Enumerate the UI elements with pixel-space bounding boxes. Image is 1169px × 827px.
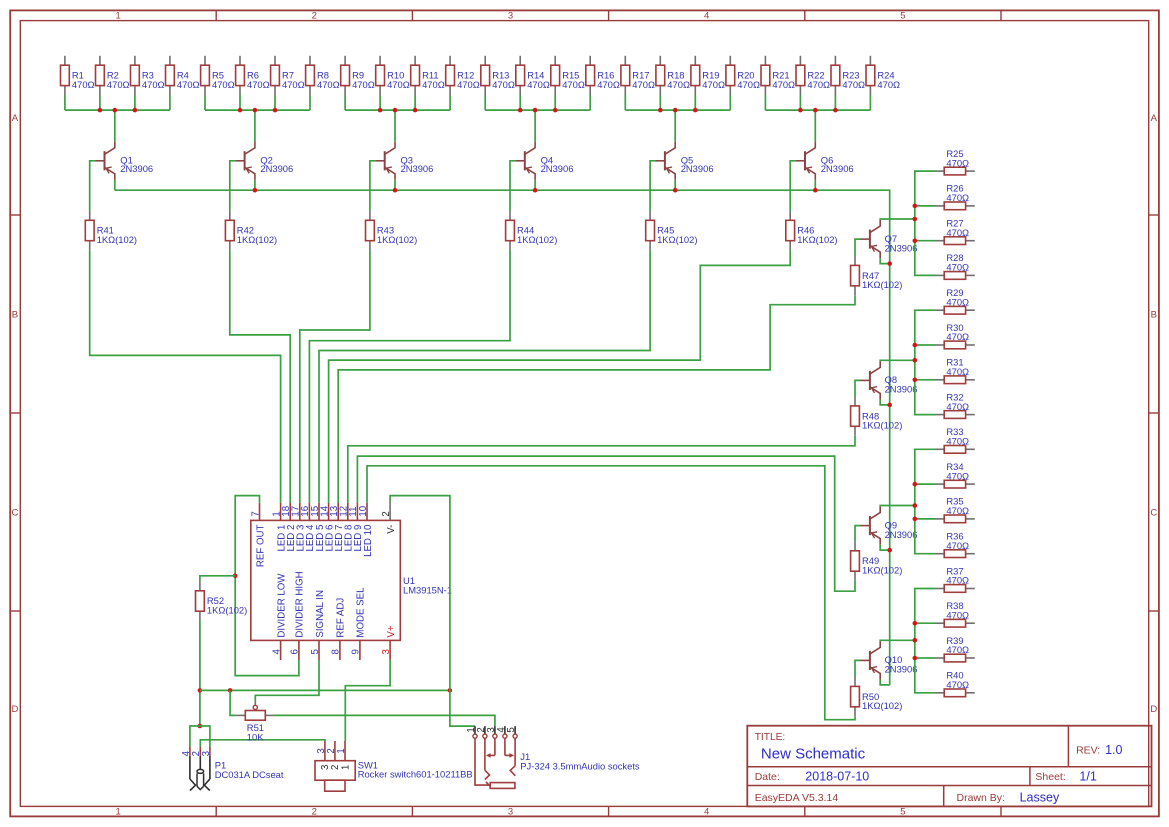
wire (P1 pins 4,3) (190, 726, 210, 747)
junction (913, 343, 918, 348)
pin 2 (V-) (381, 502, 397, 534)
junction (887, 261, 892, 266)
svg-text:470Ω: 470Ω (282, 79, 305, 90)
svg-text:New Schematic: New Schematic (761, 746, 866, 763)
op-amp U1 (LM3915N-1 IC body) (251, 520, 400, 640)
svg-text:470Ω: 470Ω (946, 540, 969, 551)
svg-text:2N3906: 2N3906 (885, 529, 918, 540)
svg-text:470Ω: 470Ω (946, 575, 969, 586)
title block (747, 726, 1151, 807)
svg-text:5: 5 (900, 11, 905, 22)
svg-text:LED 10: LED 10 (363, 524, 374, 557)
svg-text:SIGNAL IN: SIGNAL IN (315, 590, 326, 638)
transistor Q4 (515, 142, 573, 180)
wire (880, 639, 915, 642)
junction (673, 188, 678, 193)
junction (533, 108, 538, 113)
svg-text:1.0: 1.0 (1105, 743, 1122, 757)
svg-text:3: 3 (508, 807, 513, 818)
junction (887, 403, 892, 408)
pin 18 (LED 2) (281, 503, 297, 552)
resistor R24 (866, 56, 900, 95)
transistor Q9 (861, 506, 918, 544)
wire (880, 680, 890, 685)
wire (367, 466, 855, 720)
resistor R21 (761, 56, 795, 95)
resistor R8 (306, 56, 340, 95)
resistor R26 (935, 183, 975, 210)
resistor R11 (411, 56, 445, 95)
svg-text:TITLE:: TITLE: (755, 732, 786, 743)
svg-text:1KΩ(102): 1KΩ(102) (862, 700, 902, 711)
resistor R19 (691, 56, 725, 95)
junction (913, 217, 918, 222)
svg-text:1KΩ(102): 1KΩ(102) (797, 234, 837, 245)
svg-text:470Ω: 470Ω (107, 79, 130, 90)
junction (378, 108, 383, 113)
svg-text:2N3906: 2N3906 (401, 163, 434, 174)
transistor Q2 (235, 142, 293, 180)
wire (855, 239, 861, 256)
junction (393, 188, 398, 193)
pin 10 (LED 10) (358, 503, 374, 557)
svg-text:9: 9 (351, 649, 362, 654)
wire (880, 218, 915, 221)
svg-text:470Ω: 470Ω (177, 79, 200, 90)
svg-text:4: 4 (181, 750, 192, 756)
junction (887, 548, 892, 553)
svg-text:470Ω: 470Ω (492, 79, 515, 90)
svg-text:1KΩ(102): 1KΩ(102) (237, 234, 277, 245)
svg-text:2N3906: 2N3906 (681, 163, 714, 174)
junction (798, 108, 803, 113)
wire (485, 95, 590, 110)
resistor R52 (196, 581, 248, 620)
svg-text:2: 2 (312, 11, 317, 22)
resistor R22 (796, 56, 830, 95)
pin 1 (LED 1) (271, 503, 287, 552)
svg-text:470Ω: 470Ω (667, 79, 690, 90)
svg-text:8: 8 (331, 649, 342, 654)
pin 3 (V+) (381, 625, 397, 660)
wire (880, 545, 890, 550)
junction (553, 108, 558, 113)
wire (309, 250, 510, 503)
svg-text:1/1: 1/1 (1079, 770, 1096, 784)
svg-text:1: 1 (340, 765, 351, 770)
svg-text:1: 1 (115, 807, 120, 818)
resistor R4 (166, 56, 200, 95)
svg-text:MODE SEL: MODE SEL (356, 587, 367, 638)
wire (R51 to J1 pin 3) (274, 715, 495, 726)
resistor R45 (646, 211, 698, 250)
wire (814, 180, 816, 190)
resistor R50 (851, 677, 903, 716)
junction (253, 108, 258, 113)
resistor R9 (341, 56, 375, 95)
svg-text:470Ω: 470Ω (946, 436, 969, 447)
wire (bottom bus) (200, 689, 450, 691)
wire (855, 660, 861, 677)
junction (233, 574, 238, 579)
resistor R36 (935, 531, 975, 558)
pin 8 (REF ADJ) (331, 598, 347, 660)
resistor R6 (236, 56, 270, 95)
wire (880, 400, 890, 405)
svg-text:DIVIDER LOW: DIVIDER LOW (276, 573, 287, 638)
svg-text:470Ω: 470Ω (142, 79, 165, 90)
wire (394, 180, 396, 190)
svg-text:2N3906: 2N3906 (885, 384, 918, 395)
pin 9 (MODE SEL) (351, 587, 367, 660)
junction (913, 656, 918, 661)
svg-text:1KΩ(102): 1KΩ(102) (862, 420, 902, 431)
junction (198, 724, 203, 729)
svg-text:1: 1 (115, 11, 120, 22)
resistor R39 (935, 635, 975, 662)
resistor R32 (935, 391, 975, 418)
svg-text:1KΩ(102): 1KΩ(102) (97, 234, 137, 245)
wire (345, 95, 450, 110)
junction (813, 108, 818, 113)
svg-text:REV:: REV: (1076, 745, 1100, 757)
wire (650, 161, 655, 211)
svg-text:470Ω: 470Ω (946, 609, 969, 620)
svg-text:2N3906: 2N3906 (120, 163, 153, 174)
svg-text:470Ω: 470Ω (562, 79, 585, 90)
wire (115, 190, 890, 685)
svg-text:3: 3 (381, 649, 392, 654)
resistor R40 (935, 670, 975, 697)
resistor R33 (935, 426, 975, 453)
svg-text:Lassey: Lassey (1020, 791, 1060, 805)
pin 4 (DIVIDER LOW) (271, 573, 287, 660)
wire (REF OUT to DIVIDER HIGH net) (235, 496, 299, 676)
wire (199, 621, 201, 726)
svg-text:470Ω: 470Ω (422, 79, 445, 90)
svg-text:470Ω: 470Ω (807, 79, 830, 90)
resistor R48 (851, 397, 903, 436)
resistor R20 (726, 56, 760, 95)
wire (65, 95, 170, 110)
resistor R23 (831, 56, 865, 95)
resistor R27 (935, 218, 975, 245)
svg-text:C: C (11, 507, 18, 518)
resistor R13 (481, 56, 515, 95)
pin 17 (LED 3) (291, 503, 307, 552)
svg-text:REF OUT: REF OUT (255, 525, 266, 568)
transistor Q10 (861, 641, 918, 679)
svg-text:1KΩ(102): 1KΩ(102) (862, 279, 902, 290)
svg-text:2018-07-10: 2018-07-10 (805, 770, 869, 784)
junction (833, 108, 838, 113)
resistor R44 (506, 211, 558, 250)
wire (230, 690, 236, 715)
svg-text:1: 1 (336, 748, 347, 753)
wire (254, 180, 256, 190)
svg-text:2: 2 (312, 807, 317, 818)
svg-text:470Ω: 470Ω (946, 262, 969, 273)
svg-text:3: 3 (201, 751, 212, 756)
svg-text:470Ω: 470Ω (946, 227, 969, 238)
resistor R16 (586, 56, 620, 95)
pin 16 (LED 4) (300, 503, 316, 552)
svg-text:470Ω: 470Ω (387, 79, 410, 90)
wire (790, 161, 795, 211)
resistor R3 (131, 56, 165, 95)
junction (913, 378, 918, 383)
resistor R29 (935, 287, 975, 314)
svg-text:470Ω: 470Ω (946, 192, 969, 203)
svg-text:470Ω: 470Ω (352, 79, 375, 90)
resistor R25 (935, 148, 975, 175)
resistor R18 (656, 56, 690, 95)
wire (915, 171, 935, 275)
junction (413, 108, 418, 113)
resistor R30 (935, 322, 975, 349)
switch SW1 (Rocker switch601-10211BB) (315, 741, 473, 791)
svg-text:REF ADJ: REF ADJ (336, 598, 347, 638)
wire (P1 pin 2 to SW1 pin 3) (200, 740, 325, 747)
svg-text:PJ-324 3.5mmAudio sockets: PJ-324 3.5mmAudio sockets (520, 761, 640, 772)
connector J1 (PJ-324 3.5mm audio socket) (466, 726, 640, 788)
svg-text:EasyEDA V5.3.14: EasyEDA V5.3.14 (755, 792, 839, 804)
wire (370, 161, 375, 211)
wire (915, 449, 935, 553)
resistor R2 (96, 56, 130, 95)
resistor R14 (516, 56, 550, 95)
junction (448, 688, 453, 693)
resistor R7 (271, 56, 305, 95)
wire (915, 518, 935, 520)
resistor R15 (551, 56, 585, 95)
transistor Q8 (861, 361, 918, 399)
svg-text:LM3915N-1: LM3915N-1 (403, 584, 452, 595)
resistor R10 (376, 56, 410, 95)
wire (534, 180, 536, 190)
wire (300, 250, 370, 503)
svg-text:B: B (12, 309, 18, 320)
wire (90, 161, 95, 211)
wire (765, 95, 870, 110)
svg-text:470Ω: 470Ω (772, 79, 795, 90)
svg-text:2N3906: 2N3906 (541, 163, 574, 174)
pin 7 (REF OUT) (250, 503, 266, 567)
svg-text:470Ω: 470Ω (946, 644, 969, 655)
svg-text:A: A (12, 113, 19, 124)
svg-text:C: C (1150, 507, 1157, 518)
wire (319, 250, 650, 503)
resistor R38 (935, 600, 975, 627)
resistor R17 (621, 56, 655, 95)
svg-text:4: 4 (271, 649, 282, 655)
wire (510, 161, 515, 211)
junction (133, 108, 138, 113)
svg-text:Sheet:: Sheet: (1035, 771, 1065, 783)
svg-text:470Ω: 470Ω (946, 679, 969, 690)
pin 11 (LED 9) (348, 503, 364, 552)
svg-text:470Ω: 470Ω (946, 331, 969, 342)
wire (880, 258, 890, 263)
junction (113, 108, 118, 113)
junction (913, 621, 918, 626)
svg-text:10: 10 (358, 505, 369, 516)
wire (915, 344, 935, 346)
wire (915, 205, 935, 207)
svg-text:Drawn By:: Drawn By: (957, 792, 1005, 804)
wire (855, 380, 861, 396)
svg-text:B: B (1151, 309, 1157, 320)
svg-text:470Ω: 470Ω (317, 79, 340, 90)
svg-text:1KΩ(102): 1KΩ(102) (377, 234, 417, 245)
svg-text:470Ω: 470Ω (597, 79, 620, 90)
svg-text:2N3906: 2N3906 (260, 163, 293, 174)
junction (198, 688, 203, 693)
wire (394, 110, 396, 142)
svg-text:470Ω: 470Ω (702, 79, 725, 90)
transistor Q7 (861, 220, 918, 258)
svg-text:470Ω: 470Ω (212, 79, 235, 90)
transistor Q6 (796, 142, 854, 180)
pin 12 (LED 8) (339, 503, 355, 552)
resistor R35 (935, 496, 975, 523)
svg-text:470Ω: 470Ω (946, 366, 969, 377)
junction (813, 188, 818, 193)
resistor R31 (935, 357, 975, 384)
wire (534, 110, 536, 142)
wire (90, 250, 281, 503)
wire (200, 576, 235, 582)
svg-text:1KΩ(102): 1KΩ(102) (862, 564, 902, 575)
svg-text:7: 7 (250, 511, 261, 516)
transistor Q5 (656, 142, 714, 180)
wire (915, 379, 935, 381)
wire (915, 589, 935, 693)
svg-text:470Ω: 470Ω (527, 79, 550, 90)
svg-text:470Ω: 470Ω (946, 401, 969, 412)
svg-text:DIVIDER HIGH: DIVIDER HIGH (295, 571, 306, 637)
svg-text:1KΩ(102): 1KΩ(102) (207, 604, 247, 615)
svg-text:470Ω: 470Ω (247, 79, 270, 90)
resistor R46 (786, 211, 838, 250)
potentiometer R51 (10K) (236, 701, 274, 742)
svg-text:2N3906: 2N3906 (885, 242, 918, 253)
junction (913, 517, 918, 522)
connector P1 (DC031A DCseat) (181, 747, 284, 791)
junction (533, 188, 538, 193)
wire (880, 359, 915, 362)
resistor R12 (446, 56, 480, 95)
svg-text:V-: V- (386, 525, 397, 534)
junction (913, 358, 918, 363)
wire (329, 250, 791, 503)
wire (880, 505, 915, 508)
junction (253, 188, 258, 193)
svg-text:5: 5 (310, 649, 321, 654)
junction (913, 482, 918, 487)
wire (254, 110, 256, 142)
svg-text:5: 5 (506, 727, 517, 732)
resistor R37 (935, 565, 975, 592)
resistor R49 (851, 541, 903, 580)
wire (625, 95, 730, 110)
transistor Q3 (375, 142, 433, 180)
wire (357, 456, 855, 591)
svg-text:10K: 10K (247, 731, 264, 742)
wire (674, 180, 676, 190)
svg-text:4: 4 (704, 11, 709, 22)
pin 15 (LED 5) (310, 503, 326, 552)
svg-text:3: 3 (508, 11, 513, 22)
svg-text:5: 5 (900, 807, 905, 818)
svg-text:470Ω: 470Ω (72, 79, 95, 90)
svg-text:470Ω: 470Ω (946, 157, 969, 168)
junction (658, 108, 663, 113)
svg-text:Date:: Date: (755, 771, 780, 783)
junction (913, 238, 918, 243)
wire (SIGNAL IN to R51 wiper) (255, 660, 319, 701)
svg-text:A: A (1151, 113, 1158, 124)
wire (674, 110, 676, 142)
wire (855, 526, 861, 542)
wire (205, 95, 310, 110)
svg-text:470Ω: 470Ω (946, 470, 969, 481)
junction (273, 108, 278, 113)
wire (915, 483, 935, 485)
wire (114, 110, 116, 142)
svg-text:470Ω: 470Ω (457, 79, 480, 90)
resistor R41 (85, 211, 137, 250)
pin 13 (LED 7) (329, 503, 345, 552)
wire (915, 240, 935, 242)
wire (V+ net to SW1) (345, 660, 390, 741)
svg-text:6: 6 (290, 649, 301, 654)
svg-text:2N3906: 2N3906 (885, 664, 918, 675)
junction (98, 108, 103, 113)
svg-text:2N3906: 2N3906 (821, 163, 854, 174)
transistor Q1 (95, 142, 153, 180)
pin 6 (DIVIDER HIGH) (290, 571, 306, 660)
junction (913, 204, 918, 209)
wire (230, 161, 235, 211)
junction (673, 108, 678, 113)
wire (915, 310, 935, 414)
svg-text:1KΩ(102): 1KΩ(102) (517, 234, 557, 245)
junction (228, 688, 233, 693)
junction (693, 108, 698, 113)
wire (348, 436, 855, 503)
svg-text:470Ω: 470Ω (946, 505, 969, 516)
svg-text:470Ω: 470Ω (877, 79, 900, 90)
wire (V- net) (390, 496, 475, 726)
resistor R47 (851, 256, 903, 295)
wire (915, 657, 935, 659)
wire (230, 250, 290, 503)
junction (393, 108, 398, 113)
svg-text:DC031A DCseat: DC031A DCseat (215, 769, 284, 780)
resistor R43 (366, 211, 418, 250)
svg-text:4: 4 (704, 807, 709, 818)
wire (114, 180, 116, 190)
svg-text:Rocker switch601-10211BB: Rocker switch601-10211BB (358, 769, 473, 780)
svg-text:470Ω: 470Ω (842, 79, 865, 90)
junction (913, 503, 918, 508)
pin 14 (LED 6) (319, 503, 335, 552)
svg-text:470Ω: 470Ω (632, 79, 655, 90)
wire (338, 295, 855, 503)
resistor R5 (201, 56, 235, 95)
resistor R42 (225, 211, 277, 250)
